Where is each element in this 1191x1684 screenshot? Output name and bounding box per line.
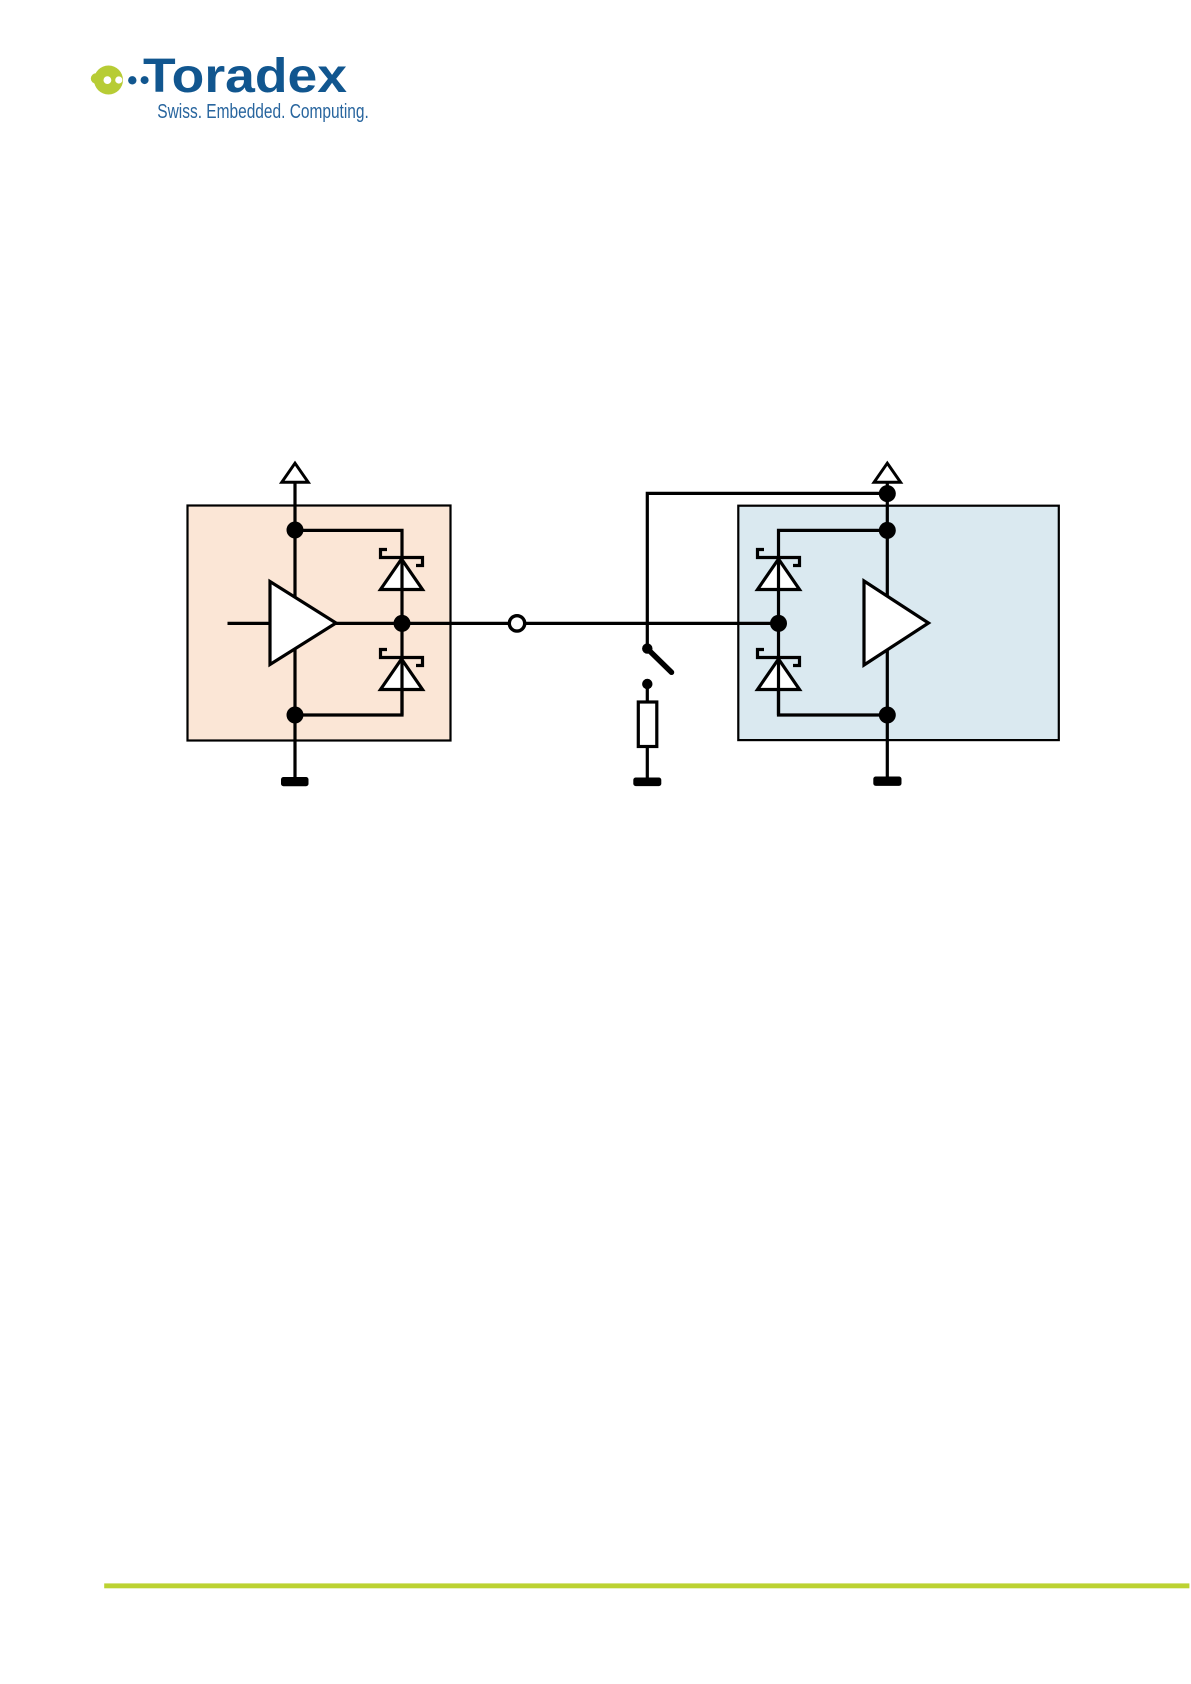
zener bar D3	[758, 550, 800, 566]
wire: left bottom branch to D2	[295, 690, 402, 716]
wire: top branch from right power to switch vertical drop	[647, 493, 887, 649]
zener bar D1	[381, 550, 423, 566]
wire: signal line to receiver	[336, 622, 779, 625]
driver block box (left, peach)	[188, 506, 451, 741]
node: right rail top junction	[879, 522, 896, 539]
wire: left top branch to D1	[295, 530, 402, 557]
op-amp U1 driver buffer	[270, 582, 336, 665]
resistor R1	[638, 702, 657, 747]
ground (right)	[873, 777, 901, 786]
node: left rail bottom junction	[287, 707, 304, 724]
wire: left diode rail through D1/D2	[400, 558, 403, 716]
Toradex logo head (green)	[91, 66, 123, 95]
op-amp U2 receiver buffer	[864, 581, 929, 665]
svg-text:Toradex: Toradex	[143, 50, 347, 103]
diode D2 triangle (left lower zener)	[381, 659, 423, 690]
wire: right diode rail through D3/D4	[777, 558, 780, 716]
wire: driver input stub	[228, 622, 271, 625]
footer rule	[104, 1583, 1189, 1588]
power symbol right (3.3V rail)	[874, 463, 900, 482]
diode D3 triangle (right upper zener)	[758, 559, 800, 590]
diode D4 triangle (right lower zener)	[758, 659, 800, 690]
node: driver output junction	[394, 615, 411, 632]
wire: right top branch to D3	[779, 530, 888, 557]
ground (middle, under resistor)	[633, 778, 661, 787]
zener bar D2	[381, 650, 423, 666]
wire: left vertical rail	[293, 530, 296, 715]
node: right rail bottom junction	[879, 707, 896, 724]
ground (left)	[281, 777, 309, 786]
svg-text:Swiss. Embedded. Computing.: Swiss. Embedded. Computing.	[157, 101, 368, 123]
diode D1 triangle (left upper zener)	[381, 559, 423, 590]
power symbol left (3.3V rail)	[282, 463, 308, 482]
wire: right power stem and rail	[886, 482, 889, 715]
wire: resistor to ground	[646, 747, 649, 778]
wire: left power stem	[293, 482, 296, 531]
wire: right bottom branch to D4	[779, 690, 888, 716]
wire: left ground stem	[293, 715, 296, 778]
node: left rail top junction	[287, 522, 304, 539]
wire: right ground stem	[886, 715, 889, 777]
wire: contact to resistor	[646, 684, 649, 702]
switch SW1 pivot	[642, 643, 652, 653]
switch SW1 blade	[650, 651, 672, 673]
switch SW1 lower contact	[642, 679, 652, 689]
zener bar D4	[758, 650, 800, 666]
logo dots (blue)	[128, 76, 149, 84]
node: right power junction	[879, 485, 896, 502]
receiver block box (right, blue)	[738, 506, 1059, 740]
pad/pin circle on signal line	[509, 616, 524, 631]
node: receiver input junction	[770, 615, 787, 632]
